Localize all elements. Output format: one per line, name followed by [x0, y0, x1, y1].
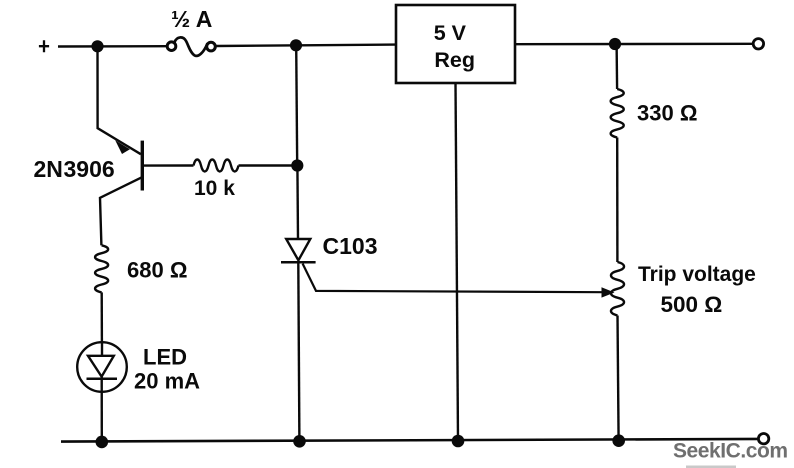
SCR Q2 gate lead to potentiometer wiper arrow [303, 264, 602, 293]
SCR Q2 cathode bar [281, 261, 316, 264]
wire R330 to potentiometer [616, 138, 619, 263]
transistor Q1 base lead wire [144, 164, 194, 167]
resistor R10k 10 k [194, 160, 239, 172]
svg-text:10 k: 10 k [194, 177, 235, 200]
wire top rail right segment [515, 43, 752, 46]
SCR Q2 C103 triangle [286, 239, 310, 260]
svg-text:Reg: Reg [434, 48, 475, 72]
node F junction dot (SCR to rail) [293, 435, 306, 448]
node D junction dot (base / 10k / SCR anode) [291, 159, 303, 171]
wire R680 to LED [100, 292, 103, 342]
LED D1 triangle [88, 356, 114, 377]
svg-text:3906: 3906 [64, 156, 115, 182]
transistor Q1 collector lead [100, 177, 142, 245]
wire bottom rail [61, 439, 762, 442]
svg-text:680 Ω: 680 Ω [127, 258, 187, 283]
output terminal top right (open circle) [753, 39, 763, 49]
wire potentiometer to bottom rail [618, 316, 619, 441]
wire R10k to node D [239, 164, 297, 166]
wire node B down to base node [296, 45, 297, 165]
output terminal bottom right (open circle) [758, 434, 768, 444]
transistor Q1 2N3906 base bar [141, 141, 144, 191]
node G junction dot (regulator ground to rail) [452, 435, 465, 448]
wire node C down to R330 [615, 44, 618, 89]
node H junction dot (potentiometer to rail) [612, 434, 625, 447]
wire LED to bottom rail [100, 377, 103, 442]
LED D1 circle [77, 342, 127, 392]
node B junction dot (SCR branch tap) [290, 39, 302, 51]
LED D1 anode lead inside [101, 342, 103, 355]
fuse F1 1/2 A [167, 42, 215, 51]
node A junction dot (emitter tap) [91, 40, 103, 52]
wire SCR cathode to bottom rail [298, 262, 299, 441]
svg-text:SeekIC.com: SeekIC.com [673, 440, 788, 463]
svg-text:5 V: 5 V [434, 21, 467, 45]
potentiometer R trip 500 ohm [611, 262, 624, 316]
resistor R330 330 ohm [611, 89, 624, 138]
svg-text:LED: LED [143, 344, 187, 369]
wire base node down to SCR anode [296, 166, 299, 239]
LED D1 cathode bar [87, 377, 118, 380]
svg-text:Trip voltage: Trip voltage [638, 263, 756, 286]
wire top rail left segment [58, 45, 167, 48]
resistor R680 680 ohm [95, 245, 108, 292]
svg-text:½ A: ½ A [171, 6, 212, 32]
svg-text:500 Ω: 500 Ω [661, 292, 723, 317]
svg-text:2N: 2N [34, 156, 63, 182]
wire top rail middle segment [216, 45, 396, 46]
watermark second line fragment [686, 466, 736, 468]
node + (positive input terminal label) [39, 40, 49, 52]
node C junction dot (330 ohm tap) [609, 38, 621, 50]
svg-text:330 Ω: 330 Ω [637, 101, 697, 126]
transistor Q1 emitter lead with arrow [98, 46, 141, 154]
svg-text:20 mA: 20 mA [134, 369, 200, 394]
regulator U1 5 V Reg box [396, 5, 515, 83]
svg-text:C103: C103 [323, 233, 378, 259]
wire regulator ground lead [456, 83, 459, 441]
node E junction dot (LED to rail) [96, 436, 109, 449]
